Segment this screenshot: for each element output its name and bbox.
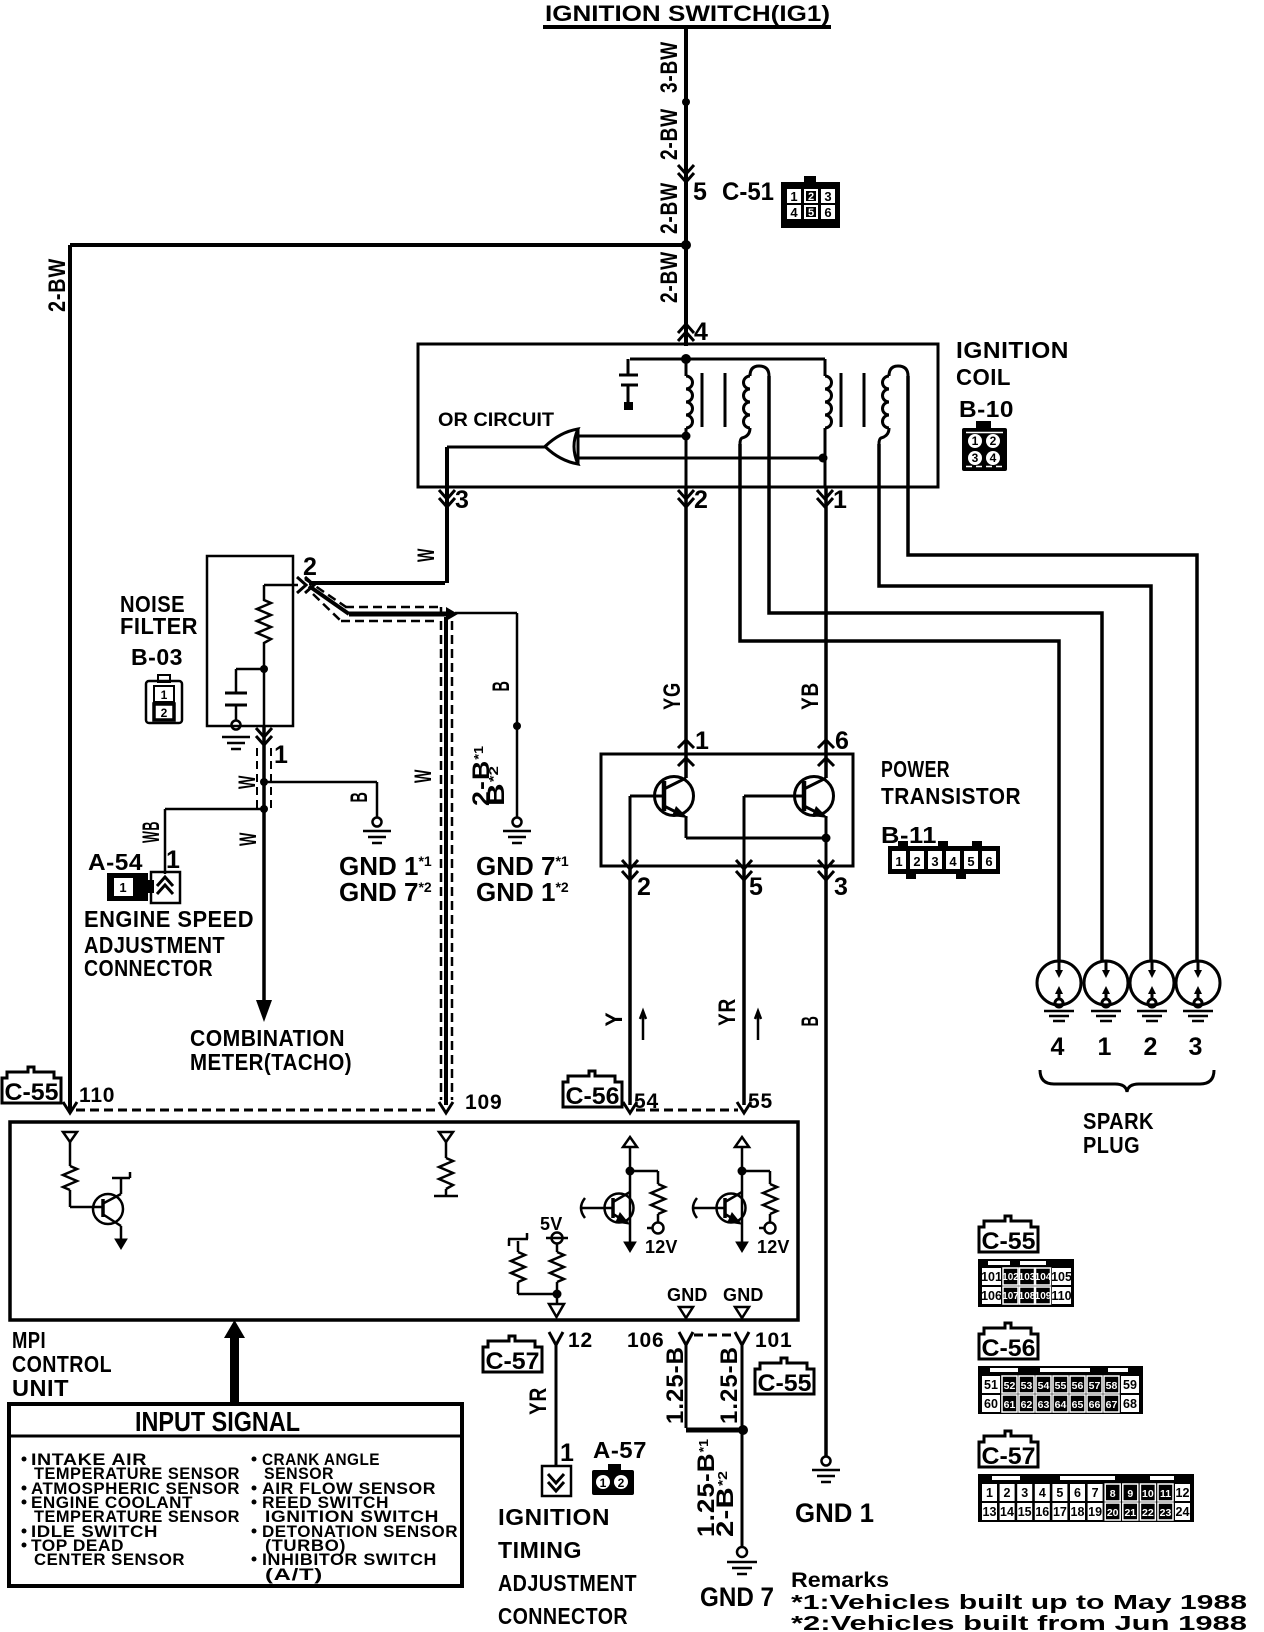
svg-text:METER(TACHO): METER(TACHO) — [190, 1049, 352, 1075]
svg-text:2: 2 — [161, 706, 168, 720]
svg-text:60: 60 — [984, 1397, 998, 1411]
svg-text:4: 4 — [949, 854, 957, 869]
svg-text:20: 20 — [1107, 1507, 1119, 1519]
svg-text:GND 1*2: GND 1*2 — [476, 877, 569, 907]
svg-text:B: B — [488, 681, 515, 692]
svg-text:IGNITION: IGNITION — [498, 1504, 610, 1530]
svg-text:C-55: C-55 — [758, 1370, 812, 1397]
svg-text:B-03: B-03 — [131, 644, 183, 670]
svg-text:GND 7: GND 7 — [700, 1582, 774, 1612]
svg-text:1: 1 — [833, 486, 848, 514]
svg-text:13: 13 — [983, 1505, 997, 1519]
svg-text:C-57: C-57 — [486, 1348, 540, 1375]
svg-text:2: 2 — [1004, 1486, 1011, 1500]
svg-text:12: 12 — [568, 1329, 593, 1352]
svg-text:2: 2 — [1144, 1033, 1159, 1061]
svg-text:3-BW: 3-BW — [656, 41, 683, 93]
svg-text:15: 15 — [1018, 1505, 1032, 1519]
svg-text:W: W — [235, 832, 262, 846]
svg-text:3: 3 — [931, 854, 938, 869]
svg-text:62: 62 — [1021, 1399, 1033, 1411]
svg-text:2: 2 — [808, 191, 814, 203]
svg-text:2: 2 — [618, 1476, 625, 1490]
svg-text:19: 19 — [1088, 1505, 1102, 1519]
svg-text:1: 1 — [166, 846, 181, 874]
svg-text:12: 12 — [1176, 1486, 1190, 1500]
svg-text:3: 3 — [1189, 1033, 1204, 1061]
svg-text:GND: GND — [723, 1285, 764, 1305]
svg-text:W: W — [234, 775, 261, 789]
svg-text:TRANSISTOR: TRANSISTOR — [881, 783, 1021, 809]
svg-text:1: 1 — [560, 1439, 575, 1467]
svg-text:1: 1 — [790, 189, 797, 204]
svg-text:6: 6 — [1074, 1486, 1081, 1500]
svg-text:B-10: B-10 — [959, 396, 1014, 422]
svg-text:C-56: C-56 — [566, 1083, 620, 1110]
svg-text:12V: 12V — [757, 1237, 790, 1257]
svg-text:4: 4 — [990, 451, 997, 465]
svg-text:CENTER SENSOR: CENTER SENSOR — [34, 1551, 185, 1569]
svg-text:COIL: COIL — [956, 364, 1011, 390]
svg-text:1: 1 — [600, 1476, 607, 1490]
svg-text:54: 54 — [1038, 1380, 1050, 1392]
svg-text:IGNITION SWITCH(IG1): IGNITION SWITCH(IG1) — [545, 1, 830, 26]
svg-text:64: 64 — [1055, 1399, 1067, 1411]
svg-text:66: 66 — [1089, 1399, 1101, 1411]
svg-text:FILTER: FILTER — [120, 613, 198, 639]
svg-text:102: 102 — [1002, 1272, 1019, 1283]
svg-text:14: 14 — [1000, 1505, 1014, 1519]
svg-text:A-54: A-54 — [88, 849, 143, 875]
svg-text:1: 1 — [119, 880, 126, 895]
svg-text:110: 110 — [79, 1084, 115, 1107]
svg-text:COMBINATION: COMBINATION — [190, 1025, 345, 1051]
svg-text:GND: GND — [667, 1285, 708, 1305]
svg-text:22: 22 — [1142, 1507, 1154, 1519]
svg-text:3: 3 — [824, 189, 831, 204]
svg-text:67: 67 — [1106, 1399, 1118, 1411]
svg-text:24: 24 — [1176, 1505, 1190, 1519]
svg-text:3: 3 — [1021, 1486, 1028, 1500]
svg-text:51: 51 — [984, 1378, 998, 1392]
svg-text:C-51: C-51 — [722, 178, 774, 206]
svg-text:GND 7*2: GND 7*2 — [339, 877, 432, 907]
svg-text:1: 1 — [274, 741, 289, 769]
svg-text:58: 58 — [1106, 1380, 1118, 1392]
svg-text:2-BW: 2-BW — [656, 182, 683, 234]
svg-text:105: 105 — [1051, 1270, 1072, 1284]
svg-text:WB: WB — [138, 821, 165, 843]
svg-text:1: 1 — [695, 727, 710, 755]
svg-text:16: 16 — [1035, 1505, 1049, 1519]
svg-text:55: 55 — [748, 1090, 773, 1113]
svg-text:4: 4 — [1051, 1033, 1066, 1061]
svg-text:TIMING: TIMING — [498, 1537, 582, 1563]
svg-text:56: 56 — [1072, 1380, 1084, 1392]
svg-text:2-BW: 2-BW — [44, 258, 71, 312]
svg-text:2: 2 — [694, 486, 709, 514]
svg-text:6: 6 — [985, 854, 992, 869]
svg-text:5: 5 — [693, 178, 707, 206]
svg-text:17: 17 — [1053, 1505, 1067, 1519]
svg-text:2-BW: 2-BW — [656, 108, 683, 160]
svg-text:PLUG: PLUG — [1083, 1132, 1140, 1158]
svg-text:B: B — [797, 1016, 824, 1027]
svg-text:Y: Y — [601, 1012, 628, 1027]
svg-text:W: W — [413, 548, 440, 562]
svg-text:6: 6 — [835, 727, 850, 755]
svg-text:OR CIRCUIT: OR CIRCUIT — [438, 410, 554, 431]
svg-text:C-55: C-55 — [5, 1079, 59, 1106]
svg-text:YB: YB — [797, 682, 824, 710]
svg-text:A-57: A-57 — [593, 1437, 647, 1463]
svg-text:1: 1 — [1098, 1033, 1113, 1061]
svg-text:109: 109 — [465, 1091, 502, 1114]
svg-text:B: B — [346, 792, 373, 803]
svg-text:2: 2 — [913, 854, 920, 869]
svg-text:1.25-B: 1.25-B — [662, 1346, 689, 1424]
svg-text:C-57: C-57 — [982, 1443, 1036, 1470]
svg-text:5: 5 — [808, 207, 814, 219]
svg-text:INPUT SIGNAL: INPUT SIGNAL — [135, 1406, 300, 1437]
svg-text:5: 5 — [967, 854, 974, 869]
svg-text:12V: 12V — [645, 1237, 678, 1257]
svg-text:103: 103 — [1019, 1272, 1036, 1283]
svg-text:1: 1 — [161, 688, 168, 702]
svg-text:1.25-B: 1.25-B — [716, 1346, 743, 1424]
svg-text:3: 3 — [972, 451, 979, 465]
svg-text:63: 63 — [1038, 1399, 1050, 1411]
svg-text:101: 101 — [755, 1329, 792, 1352]
svg-text:IGNITION: IGNITION — [956, 337, 1069, 363]
svg-text:2: 2 — [990, 434, 997, 448]
svg-text:5: 5 — [749, 873, 764, 901]
svg-text:C-56: C-56 — [982, 1335, 1036, 1362]
svg-text:*1:Vehicles built up to May 19: *1:Vehicles built up to May 1988 — [791, 1592, 1247, 1614]
svg-text:8: 8 — [1110, 1488, 1116, 1500]
svg-text:101: 101 — [981, 1270, 1002, 1284]
svg-text:108: 108 — [1019, 1291, 1036, 1302]
svg-text:MPI: MPI — [12, 1327, 46, 1353]
svg-text:4: 4 — [1039, 1486, 1046, 1500]
svg-text:SPARK: SPARK — [1083, 1108, 1154, 1134]
svg-text:3: 3 — [455, 486, 470, 514]
svg-text:ENGINE SPEED: ENGINE SPEED — [84, 906, 254, 932]
svg-text:YR: YR — [525, 1387, 552, 1415]
svg-text:*2:Vehicles built from Jun 198: *2:Vehicles built from Jun 1988 — [791, 1613, 1247, 1632]
svg-text:YR: YR — [714, 998, 741, 1026]
svg-text:Remarks: Remarks — [791, 1569, 889, 1592]
svg-text:6: 6 — [824, 205, 831, 220]
svg-text:9: 9 — [1127, 1488, 1133, 1500]
svg-text:10: 10 — [1142, 1488, 1154, 1500]
svg-text:18: 18 — [1071, 1505, 1085, 1519]
svg-text:54: 54 — [634, 1090, 659, 1113]
svg-text:57: 57 — [1089, 1380, 1101, 1392]
svg-text:11: 11 — [1160, 1488, 1171, 1500]
svg-text:110: 110 — [1051, 1289, 1071, 1303]
svg-text:4: 4 — [694, 318, 709, 346]
svg-text:107: 107 — [1002, 1291, 1019, 1302]
svg-text:109: 109 — [1035, 1291, 1052, 1302]
svg-text:21: 21 — [1124, 1507, 1136, 1519]
svg-text:CONNECTOR: CONNECTOR — [84, 955, 213, 981]
svg-text:1: 1 — [986, 1486, 993, 1500]
svg-text:1: 1 — [972, 434, 979, 448]
svg-text:55: 55 — [1055, 1380, 1067, 1392]
svg-text:4: 4 — [790, 205, 798, 220]
svg-text:C-55: C-55 — [982, 1228, 1036, 1255]
svg-text:3: 3 — [834, 873, 849, 901]
svg-text:53: 53 — [1021, 1380, 1033, 1392]
svg-text:7: 7 — [1092, 1486, 1099, 1500]
svg-text:106: 106 — [981, 1289, 1002, 1303]
svg-text:59: 59 — [1123, 1378, 1137, 1392]
svg-text:1: 1 — [895, 854, 902, 869]
svg-text:5V: 5V — [540, 1214, 562, 1234]
svg-text:GND 1: GND 1 — [795, 1498, 874, 1528]
svg-text:UNIT: UNIT — [12, 1375, 69, 1401]
svg-text:2-BW: 2-BW — [656, 251, 683, 303]
svg-text:CONNECTOR: CONNECTOR — [498, 1603, 628, 1629]
svg-text:104: 104 — [1035, 1272, 1052, 1283]
svg-text:106: 106 — [627, 1329, 664, 1352]
svg-text:W: W — [410, 769, 437, 783]
svg-text:5: 5 — [1056, 1486, 1063, 1500]
svg-text:(A/T): (A/T) — [265, 1566, 323, 1584]
svg-text:65: 65 — [1072, 1399, 1084, 1411]
svg-text:52: 52 — [1004, 1380, 1016, 1392]
svg-text:CONTROL: CONTROL — [12, 1351, 112, 1377]
svg-text:61: 61 — [1004, 1399, 1016, 1411]
svg-text:YG: YG — [659, 682, 686, 710]
svg-text:23: 23 — [1160, 1507, 1172, 1519]
svg-text:ADJUSTMENT: ADJUSTMENT — [498, 1570, 637, 1596]
svg-text:B-11: B-11 — [881, 822, 937, 848]
svg-text:POWER: POWER — [881, 756, 950, 782]
svg-text:68: 68 — [1123, 1397, 1137, 1411]
svg-text:2: 2 — [637, 873, 652, 901]
